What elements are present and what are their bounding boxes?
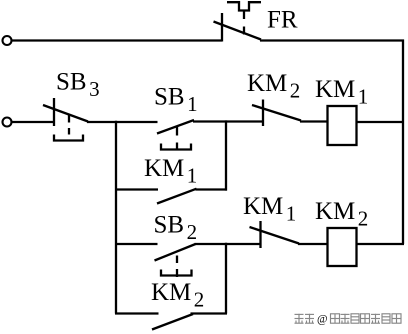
wire coil KM1 to right rail	[357, 121, 405, 123]
watermark 头条 @电气自动化应用	[295, 314, 402, 323]
contact KM2 (NO self-latch) right wire	[191, 312, 228, 314]
contact KM1 (NO self-latch) arm	[157, 189, 197, 204]
contact KM1 (NO self-latch) left wire	[115, 188, 158, 190]
svg-text:FR: FR	[267, 7, 298, 34]
svg-text:KM2: KM2	[315, 198, 368, 231]
wire KM2 NC to coil KM1	[300, 120, 327, 122]
wire row D SB2 to KM1 NC	[195, 243, 262, 245]
wire KM1 NC to coil KM2	[298, 243, 327, 245]
pushbutton SB3 actuator dashes	[68, 115, 70, 123]
contact SB1 (NO) arm	[157, 120, 194, 134]
contact KM1 (NC interlock) bar	[259, 221, 261, 248]
coil KM2	[328, 228, 357, 266]
thermal element FR heater	[227, 2, 261, 10]
pushbutton SB1 cap	[161, 144, 191, 150]
svg-text:KM1: KM1	[144, 155, 197, 188]
wire left trunk vertical	[115, 121, 117, 314]
contact FR (NC) arm	[214, 22, 262, 40]
wire row B to SB3	[12, 121, 56, 123]
pushbutton SB2 (NO) arm	[155, 244, 196, 261]
pushbutton SB2 cap	[161, 270, 192, 276]
wire row D from trunk	[115, 243, 158, 245]
svg-text:KM2: KM2	[151, 279, 204, 312]
contact KM2 (NO self-latch) left wire	[115, 312, 159, 314]
terminal L1 (top left)	[3, 36, 12, 45]
terminal L2 (left, main row)	[3, 118, 12, 127]
wire right branch vertical lower	[225, 243, 227, 314]
contact KM2 (NO self-latch) arm	[152, 314, 193, 330]
FR actuator dash lower	[243, 27, 245, 35]
pushbutton SB3 (NC) bar	[53, 98, 55, 126]
contact FR (NC) bar	[221, 13, 223, 42]
svg-text:SB3: SB3	[56, 69, 100, 102]
contact KM1 (NO self-latch) right wire	[196, 188, 228, 190]
pushbutton SB3 (NC) arm	[43, 105, 88, 122]
pushbutton SB3 cap	[54, 135, 83, 141]
svg-text:SB2: SB2	[154, 211, 198, 244]
wire top rail left	[12, 39, 223, 41]
contact KM2 (NC interlock) arm	[252, 105, 301, 121]
wire right rail	[402, 40, 404, 245]
wire coil KM2 to right rail	[357, 243, 405, 245]
svg-text:@: @	[317, 314, 328, 326]
contact KM1 (NC interlock) arm	[250, 227, 300, 244]
pushbutton SB1 actuator dashes	[176, 127, 178, 136]
FR actuator dash upper	[243, 11, 245, 20]
svg-text:KM2: KM2	[247, 70, 300, 103]
svg-text:SB1: SB1	[154, 84, 198, 117]
svg-text:KM1: KM1	[243, 193, 296, 226]
svg-text:KM1: KM1	[315, 76, 368, 109]
wire right branch vertical upper	[225, 120, 227, 190]
wire row B SB3 to SB1	[87, 121, 158, 123]
coil KM1	[328, 106, 357, 145]
wire top rail right	[260, 39, 404, 41]
wire row B SB1 to KM2 NC	[193, 120, 264, 122]
contact KM2 (NC interlock) bar	[262, 100, 264, 127]
pushbutton SB2 actuator dashes	[176, 256, 178, 264]
